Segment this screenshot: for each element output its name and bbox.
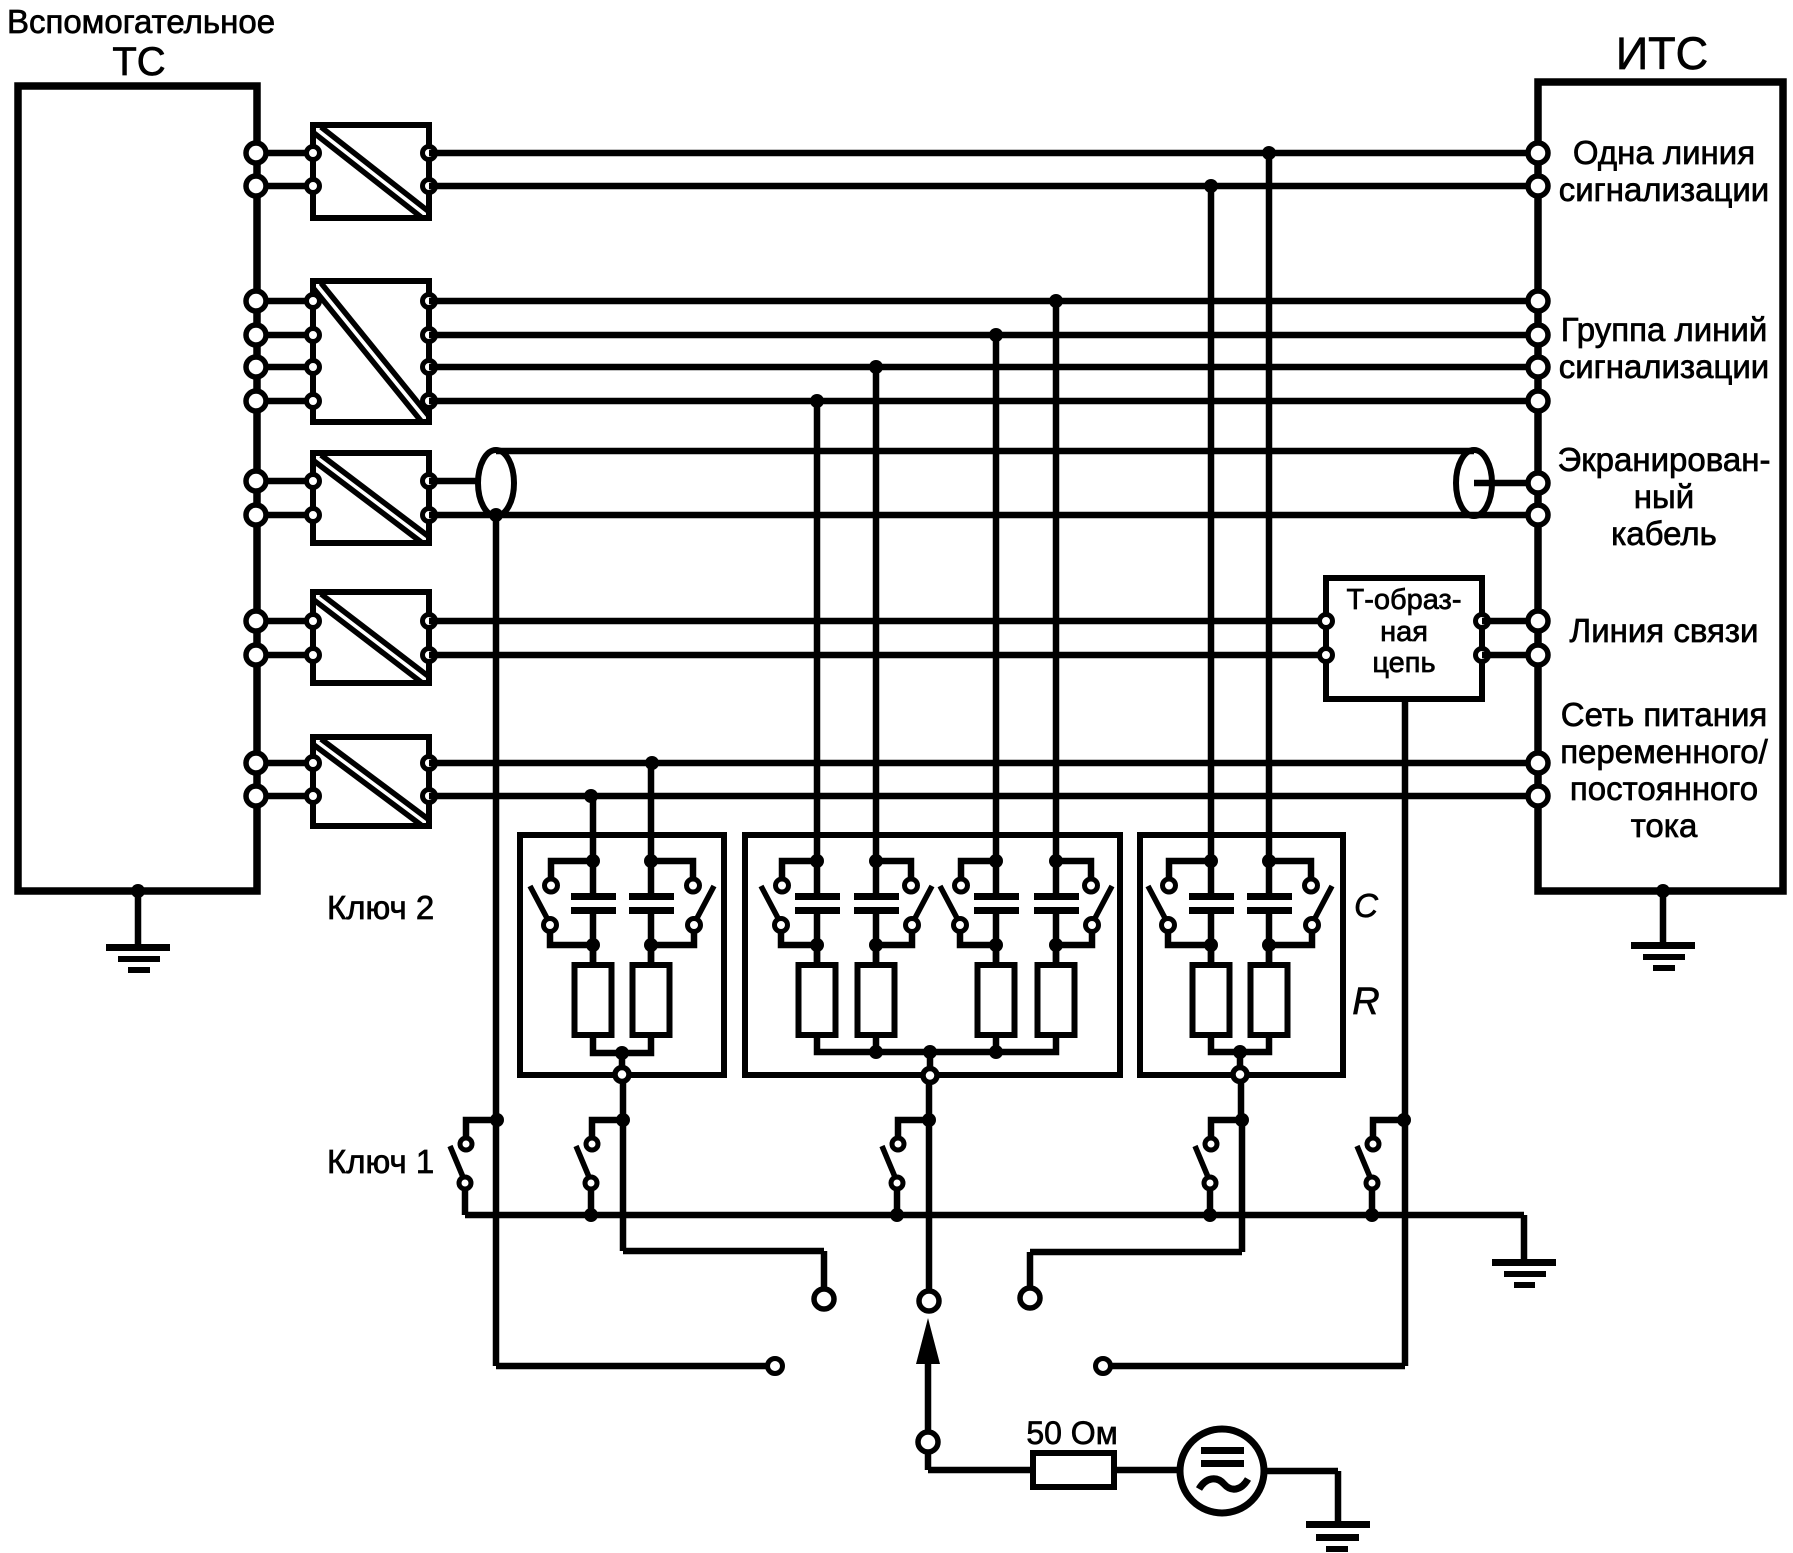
- terminal on aux bus at y=301: [246, 291, 266, 311]
- filter left pin y=367: [307, 361, 320, 374]
- ИТС terminal y=186: [1528, 176, 1548, 196]
- ИТС terminal y=153: [1528, 143, 1548, 163]
- arrow: generator selector pointing to block2 contact: [916, 1318, 940, 1431]
- wire: resistor to generator: [1114, 1467, 1180, 1474]
- block2 bottom common wire and output node: [817, 1035, 1056, 1083]
- wire: signalling line 2 (y=186) filter to ИТС: [429, 183, 1538, 190]
- block3 unit A: switch, capacitor, resistor (x=1211): [1148, 854, 1234, 1035]
- wire: vertical tap from upper power line down to C/R unit (x=651): [648, 763, 655, 894]
- changeover contact (shield side): [768, 1359, 783, 1374]
- svg-text:цепь: цепь: [1372, 647, 1435, 679]
- wire: aux bus terminal to filter pin, y=515: [256, 512, 313, 519]
- label: Одна линия сигнализации: [1559, 134, 1770, 208]
- C/R network block 2 (group signalling lines): [745, 835, 1120, 1075]
- terminal on aux bus at y=796: [246, 786, 266, 806]
- filter left pin y=186: [307, 180, 320, 193]
- key 1 switch S2 (block1 line): [576, 1113, 630, 1215]
- wire: vertical tap from signal line 2 down to C/R unit (x=1211): [1208, 186, 1215, 894]
- wire: cable bottom / shield line (y=515) to ИТС: [429, 512, 1538, 519]
- wire: vertical tap from group line 1 down to C/R unit (x=1056): [1053, 301, 1060, 894]
- block2 unit 1: switch, capacitor, resistor (x=817): [761, 854, 840, 1035]
- filter right pin y=367: [423, 361, 436, 374]
- svg-text:ный: ный: [1634, 478, 1694, 515]
- label: Ключ 1: [327, 1143, 434, 1180]
- filter left pin y=301: [307, 295, 320, 308]
- ground under auxiliary TC box: [106, 884, 170, 973]
- EUT box (ИТС): [1538, 82, 1783, 891]
- wire: contact to 50 Ohm resistor: [928, 1452, 1033, 1470]
- wire: group signalling line y=335 filter to ИТС: [429, 332, 1538, 339]
- generator-side contact circle: [918, 1432, 938, 1452]
- block1 unit A: switch, capacitor C, resistor R (x=593): [530, 854, 616, 1035]
- wire: group signalling line y=401 filter to ИТС: [429, 398, 1538, 405]
- filter right pin y=301: [423, 295, 436, 308]
- label: Экранированный кабель: [1558, 441, 1771, 552]
- block3 bottom common wire and output node: [1211, 1035, 1269, 1082]
- ИТС terminal y=515: [1528, 505, 1548, 525]
- wire: block2 output straight down to changeover contact: [926, 1081, 933, 1290]
- changeover contact (T-circuit side): [1096, 1359, 1111, 1374]
- svg-text:Ключ 1: Ключ 1: [327, 1143, 434, 1180]
- wire: vertical tap from signal line 1 down to C/R unit (x=1269): [1266, 153, 1273, 894]
- block2 unit 3: switch, capacitor, resistor (x=996): [940, 854, 1019, 1035]
- block1 unit B: switch, capacitor C, resistor R (x=651): [629, 854, 714, 1035]
- junctions of switches on earth bus: [584, 1208, 1379, 1222]
- wire: T-circuit to ИТС upper: [1482, 618, 1538, 625]
- wire: earth bus to ground: [1521, 1215, 1528, 1262]
- T-network right pin upper: [1476, 615, 1489, 628]
- label: Сеть питания переменного/постоянного тока: [1560, 696, 1768, 844]
- svg-text:50 Ом: 50 Ом: [1026, 1415, 1117, 1451]
- svg-text:Одна линия: Одна линия: [1573, 134, 1755, 171]
- svg-text:Экранирован-: Экранирован-: [1558, 441, 1771, 478]
- filter right pin y=763: [423, 757, 436, 770]
- svg-text:Группа линий: Группа линий: [1561, 311, 1768, 348]
- svg-text:постоянного: постоянного: [1570, 770, 1758, 807]
- wire: aux bus terminal to filter pin, y=401: [256, 398, 313, 405]
- wire: vertical tap from group line 4 down to C/R unit (x=817): [814, 401, 821, 894]
- T-network box (Т-образная цепь): [1326, 578, 1482, 699]
- ИТС terminal y=621: [1528, 611, 1548, 631]
- T-network left pin lower: [1320, 649, 1333, 662]
- wire: vertical tap from group line 3 down to C/R unit (x=876): [873, 367, 880, 894]
- ИТС terminal y=763: [1528, 753, 1548, 773]
- filter right pin y=186: [423, 180, 436, 193]
- junction on signalling line 1: [1262, 146, 1276, 160]
- junction on group line y=367: [869, 360, 883, 374]
- filter right pin y=515: [423, 509, 436, 522]
- ИТС terminal y=301: [1528, 291, 1548, 311]
- svg-text:Сеть питания: Сеть питания: [1561, 696, 1768, 733]
- filter right pin y=153: [423, 147, 436, 160]
- filter right pin y=335: [423, 329, 436, 342]
- decoupling filter 5 (power mains): [313, 737, 429, 826]
- wire: signalling line 1 (y=153) filter to ИТС: [429, 150, 1538, 157]
- ИТС terminal y=483: [1528, 473, 1548, 493]
- filter left pin y=335: [307, 329, 320, 342]
- ground at earth bus right end: [1492, 1259, 1556, 1288]
- label: ИТС: [1616, 28, 1708, 79]
- wire: aux bus terminal to filter pin, y=153: [256, 150, 313, 157]
- svg-text:C: C: [1354, 887, 1379, 924]
- filter right pin y=796: [423, 790, 436, 803]
- key 1 switch S5 (T-circuit line): [1357, 1113, 1411, 1215]
- wire: aux bus terminal to filter pin, y=621: [256, 618, 313, 625]
- wire: aux bus terminal to filter pin, y=186: [256, 183, 313, 190]
- terminal on aux bus at y=515: [246, 505, 266, 525]
- block1 bottom common wire and output node: [593, 1035, 651, 1082]
- label: Группа линий сигнализации: [1559, 311, 1770, 385]
- ИТС terminal y=401: [1528, 391, 1548, 411]
- svg-text:тока: тока: [1631, 807, 1698, 844]
- C/R network block 3 (one signalling line): [1140, 835, 1343, 1075]
- junction: shield tap at left cable end: [489, 508, 503, 522]
- filter left pin y=763: [307, 757, 320, 770]
- filter left pin y=401: [307, 395, 320, 408]
- junction on group line y=335: [989, 328, 1003, 342]
- svg-text:ТС: ТС: [112, 40, 165, 84]
- terminal on aux bus at y=401: [246, 391, 266, 411]
- label: Ключ 2: [327, 889, 434, 926]
- wire: T-circuit to ИТС lower: [1482, 652, 1538, 659]
- block2 unit 4: switch, capacitor, resistor (x=1056): [1034, 854, 1112, 1035]
- svg-text:R: R: [1352, 981, 1379, 1023]
- wire: aux bus terminal to filter pin, y=763: [256, 760, 313, 767]
- svg-text:ИТС: ИТС: [1616, 28, 1708, 79]
- terminal on aux bus at y=655: [246, 645, 266, 665]
- T-network right pin lower: [1476, 649, 1489, 662]
- svg-text:сигнализации: сигнализации: [1559, 348, 1770, 385]
- block2 unit 2: switch, capacitor, resistor (x=876): [854, 854, 932, 1035]
- wire: aux bus terminal to filter pin, y=481: [256, 478, 313, 485]
- label: Вспомогательное ТС: [7, 3, 275, 84]
- terminal on aux bus at y=763: [246, 753, 266, 773]
- ИТС terminal y=335: [1528, 325, 1548, 345]
- filter right pin y=481: [423, 475, 436, 488]
- filter left pin y=515: [307, 509, 320, 522]
- wire: cable shield down to key1 switch S1 and changeover contact: [496, 515, 766, 1366]
- wire: power line upper (y=763) filter5 to ИТС: [429, 760, 1538, 767]
- svg-text:Т-образ-: Т-образ-: [1347, 584, 1462, 616]
- filter left pin y=621: [307, 615, 320, 628]
- decoupling filter 3 (shielded cable): [313, 453, 429, 543]
- wire: block3 output down, over to changeover contact: [1030, 1081, 1242, 1287]
- filter left pin y=796: [307, 790, 320, 803]
- wire: aux bus terminal to filter pin, y=301: [256, 298, 313, 305]
- shielded cable body: top line: [496, 448, 1474, 455]
- junction on group line y=301: [1049, 294, 1063, 308]
- label: R (resistor designator): [1352, 981, 1379, 1023]
- wire: inner conductor right cable end to ИТС: [1474, 480, 1533, 487]
- decoupling filter 1 (one signalling line): [313, 125, 429, 218]
- auxiliary equipment box (Вспомогательное ТС): [18, 86, 257, 891]
- junction on upper power line: [645, 756, 659, 770]
- changeover contact (block2, selected): [919, 1291, 939, 1311]
- changeover contact (block3): [1020, 1288, 1040, 1308]
- junction on lower power line: [584, 789, 598, 803]
- label: C (capacitor designator): [1354, 887, 1379, 924]
- resistor 50 Ом: [1033, 1453, 1114, 1487]
- decoupling filter 2 (group of signalling lines): [313, 281, 429, 422]
- junction on signalling line 2: [1204, 179, 1218, 193]
- wire: block1 output down, over to changeover contact: [623, 1081, 824, 1288]
- wire: generator to ground: [1264, 1471, 1338, 1524]
- svg-text:переменного/: переменного/: [1560, 733, 1768, 770]
- svg-text:Вспомогательное: Вспомогательное: [7, 3, 275, 40]
- svg-text:Ключ 2: Ключ 2: [327, 889, 434, 926]
- terminal on aux bus at y=367: [246, 357, 266, 377]
- decoupling filter 4 (communication line): [313, 592, 429, 683]
- key 1 switch S4 (block3 line): [1195, 1113, 1249, 1215]
- filter right pin y=655: [423, 649, 436, 662]
- wire: group signalling line y=301 filter to ИТС: [429, 298, 1538, 305]
- terminal on aux bus at y=481: [246, 471, 266, 491]
- wire: aux bus terminal to filter pin, y=796: [256, 793, 313, 800]
- test generator G: [1180, 1429, 1264, 1513]
- ground under ИТС box: [1631, 884, 1695, 971]
- wire: inner conductor from filter3 to cable end: [429, 478, 480, 485]
- filter left pin y=153: [307, 147, 320, 160]
- wire: aux bus terminal to filter pin, y=367: [256, 364, 313, 371]
- block3 unit B: switch, capacitor, resistor (x=1269): [1247, 854, 1332, 1035]
- terminal on aux bus at y=186: [246, 176, 266, 196]
- label: Линия связи: [1570, 612, 1759, 649]
- T-network left pin upper: [1320, 615, 1333, 628]
- wire: communication line upper (y=621) filter4 to T-circuit: [429, 618, 1326, 625]
- earth bus wire (y=1215): [465, 1212, 1524, 1219]
- ground at generator: [1306, 1521, 1370, 1552]
- ИТС terminal y=367: [1528, 357, 1548, 377]
- ИТС terminal y=655: [1528, 645, 1548, 665]
- svg-text:Линия связи: Линия связи: [1570, 612, 1759, 649]
- wire: aux bus terminal to filter pin, y=335: [256, 332, 313, 339]
- filter left pin y=655: [307, 649, 320, 662]
- filter left pin y=481: [307, 475, 320, 488]
- terminal on aux bus at y=335: [246, 325, 266, 345]
- terminal on aux bus at y=621: [246, 611, 266, 631]
- C/R network block 1 (power mains): [520, 835, 724, 1075]
- wire: vertical tap from lower power line down to C/R unit (x=593): [590, 796, 597, 894]
- junction on group line y=401: [810, 394, 824, 408]
- label: 50 Ом: [1026, 1415, 1117, 1451]
- key 1 switch S1 (shield line): [450, 1113, 504, 1215]
- wire: T-circuit bottom stub down to changeover contact: [1112, 699, 1405, 1366]
- svg-text:кабель: кабель: [1611, 515, 1717, 552]
- filter right pin y=621: [423, 615, 436, 628]
- shielded cable left end ellipse: [478, 450, 514, 516]
- wire: aux bus terminal to filter pin, y=655: [256, 652, 313, 659]
- wire: power line lower (y=796) filter5 to ИТС: [429, 793, 1538, 800]
- wire: vertical tap from group line 2 down to C/R unit (x=996): [993, 335, 1000, 894]
- wire: group signalling line y=367 filter to ИТС: [429, 364, 1538, 371]
- svg-text:сигнализации: сигнализации: [1559, 171, 1770, 208]
- changeover contact (block1): [814, 1289, 834, 1309]
- svg-text:ная: ная: [1380, 616, 1428, 648]
- shielded cable right end ellipse: [1456, 450, 1492, 516]
- terminal on aux bus at y=153: [246, 143, 266, 163]
- wire: communication line lower (y=655) filter4 to T-circuit: [429, 652, 1326, 659]
- key 1 switch S3 (block2 line): [882, 1113, 936, 1215]
- ИТС terminal y=796: [1528, 786, 1548, 806]
- filter right pin y=401: [423, 395, 436, 408]
